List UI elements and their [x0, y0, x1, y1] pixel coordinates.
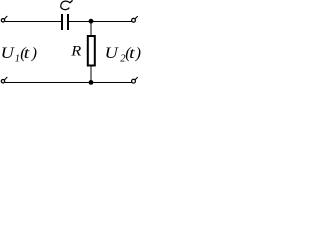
capacitor C1 left plate	[61, 14, 63, 30]
wire bottom	[5, 82, 132, 83]
svg-text:t: t	[129, 45, 135, 62]
capacitor C1 label C	[61, 0, 73, 9]
svg-text:): )	[31, 45, 37, 62]
resistor R1	[88, 36, 95, 66]
svg-text:t: t	[24, 45, 30, 62]
node junction bottom	[89, 80, 94, 85]
node junction top	[89, 19, 94, 24]
svg-text:U: U	[105, 45, 120, 62]
terminal top-left	[1, 16, 7, 22]
terminal top-right	[132, 16, 138, 22]
svg-text:1: 1	[15, 54, 20, 65]
svg-text:): )	[135, 45, 141, 62]
wire resistor to bottom	[91, 66, 92, 82]
svg-text:U: U	[1, 45, 16, 62]
wire junction to resistor	[91, 21, 92, 36]
label U1(t)	[1, 45, 37, 64]
terminal bottom-right	[132, 77, 138, 83]
wire top-left segment	[5, 21, 61, 22]
label U2(t)	[105, 45, 141, 64]
terminal bottom-left	[1, 77, 7, 83]
capacitor C1 right plate	[67, 14, 69, 30]
wire top-right segment	[69, 21, 132, 22]
svg-text:R: R	[70, 44, 81, 60]
